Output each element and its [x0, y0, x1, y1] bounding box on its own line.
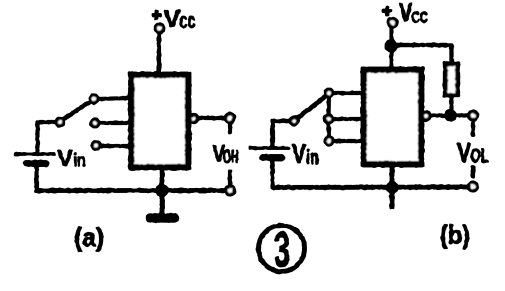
svg-text:V: V — [399, 0, 413, 28]
pin 2 stub (a) — [99, 121, 130, 124]
wire corner down to battery (b) — [271, 120, 274, 148]
ground (a) — [151, 214, 175, 223]
wire Vcc node to resistor top (b) — [391, 45, 452, 63]
wire joining pins 2-3 (b) — [327, 122, 331, 138]
pin 2 contact (b) — [325, 115, 332, 122]
svg-text:(a): (a) — [74, 222, 104, 252]
pin 3 contact (a) — [92, 142, 99, 149]
pin 1 contact (b) — [325, 89, 332, 96]
pin 1 contact (a) — [90, 95, 97, 102]
VCC terminal (a) — [152, 11, 164, 33]
label VOH — [213, 141, 239, 169]
svg-text:V: V — [457, 137, 471, 168]
pin 1 stub (a) — [97, 98, 130, 99]
label +Vcc (b) — [399, 0, 428, 28]
pin 3 stub (a) — [100, 144, 130, 147]
ground stub (b) — [390, 189, 394, 209]
ground stub (a) — [160, 190, 164, 214]
wire pole to corner (b) — [271, 119, 290, 122]
svg-text:3: 3 — [274, 222, 290, 278]
node VOH top terminal (a) — [226, 114, 234, 122]
svg-text:in: in — [306, 147, 319, 169]
junction dot bottom rail (b) — [386, 181, 398, 193]
svg-text:OL: OL — [471, 146, 489, 168]
stub above bottom terminal (a) — [228, 170, 231, 185]
pin 2 contact (a) — [91, 119, 98, 126]
node bottom terminal (a) — [226, 187, 234, 195]
wire battery to bottom rail (b) — [271, 159, 274, 187]
stub below top terminal (b) — [471, 122, 474, 137]
switch S1 pole (a) — [56, 118, 63, 125]
wire Vcc to U1 top (a) — [157, 32, 160, 74]
label Vin (a) — [57, 145, 86, 172]
battery Vin (b) negative plate — [262, 155, 282, 161]
junction dot output node (b) — [445, 110, 457, 122]
wire output to terminal (a) — [197, 116, 225, 119]
VCC terminal (b) — [382, 6, 397, 27]
pin 3 stub (b) — [332, 139, 363, 142]
switch S1 arm (a) — [63, 101, 91, 120]
op-amp U1 (a) body — [132, 75, 189, 167]
resistor R1 (b) — [446, 64, 458, 95]
battery Vin (b) positive plate — [249, 147, 290, 150]
bottom rail wire (a) — [35, 189, 226, 193]
wire U2 bottom to rail (b) — [390, 163, 394, 188]
output pin contact (b) — [422, 112, 429, 119]
svg-text:CC: CC — [412, 10, 429, 27]
junction dot Vcc node (b) — [385, 40, 397, 52]
svg-text:V: V — [292, 138, 306, 169]
svg-text:(b): (b) — [440, 220, 470, 250]
svg-text:in: in — [74, 151, 86, 172]
node bottom terminal (b) — [469, 183, 477, 191]
wire output to terminal (b) — [429, 114, 468, 117]
svg-text:cc: cc — [180, 8, 196, 33]
wire Vcc down (b) — [390, 26, 393, 70]
op-amp U2 (b) body — [364, 70, 421, 164]
svg-text:V: V — [164, 6, 181, 33]
wire corner down to battery (a) — [36, 121, 39, 154]
pin 2 stub (b) — [332, 117, 363, 120]
battery Vin (a) negative plate — [26, 161, 46, 167]
switch S2 pole (b) — [290, 117, 297, 124]
wire battery to bottom rail (a) — [35, 165, 38, 190]
bottom rail wire (b) — [271, 185, 468, 190]
label +Vcc (a) — [164, 6, 196, 33]
junction dot (a) — [156, 184, 168, 196]
pin 3 contact (b) — [325, 137, 332, 144]
output pin contact (a) — [190, 115, 197, 122]
wire U1 bottom to rail (a) — [160, 166, 164, 190]
battery Vin (a) positive plate — [14, 153, 55, 156]
switch S2 arm (b) — [297, 96, 326, 119]
stub above bottom terminal (b) — [471, 166, 474, 179]
label VOL — [457, 137, 489, 168]
wire pole to corner (a) — [36, 120, 56, 123]
pin 1 stub (b) — [332, 91, 363, 94]
node VOL top terminal (b) — [469, 112, 477, 120]
svg-text:V: V — [57, 145, 73, 171]
wire joining pins 1-2 (b) — [327, 96, 331, 116]
stub below top terminal (a) — [228, 123, 231, 134]
svg-text:OH: OH — [223, 147, 239, 168]
figure number 3 circle — [259, 226, 305, 272]
label Vin (b) — [292, 138, 319, 169]
wire resistor to output node (b) — [450, 96, 453, 115]
